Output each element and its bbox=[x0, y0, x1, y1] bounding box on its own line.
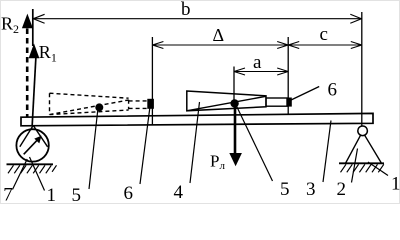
leader to upper label 6 bbox=[290, 87, 319, 101]
right ground hatching bbox=[341, 164, 384, 172]
leader for label 2 bbox=[352, 149, 358, 183]
force P_l line bbox=[234, 104, 237, 155]
tick delta right / a right bbox=[287, 37, 289, 115]
svg-text:7: 7 bbox=[3, 184, 13, 204]
force R1 line (also left tick of dimension b) bbox=[32, 9, 34, 46]
leader for label 4 bbox=[190, 102, 200, 183]
leader for lower label 6 bbox=[140, 108, 150, 184]
dimension a left arrowhead bbox=[234, 68, 245, 75]
svg-text:3: 3 bbox=[306, 179, 316, 200]
dimension c left arrowhead bbox=[288, 42, 299, 49]
leader for right label 5 bbox=[236, 105, 273, 181]
solid weight pointer diagonal bbox=[187, 96, 266, 111]
svg-text:6: 6 bbox=[124, 183, 134, 204]
beam 3 (lever bar) bbox=[21, 113, 373, 125]
stop square 6 bbox=[287, 98, 292, 107]
left ground line bbox=[7, 163, 54, 165]
force R2 arrowhead bbox=[22, 14, 33, 29]
leader for label 7 bbox=[13, 159, 28, 190]
leader for left label 5 bbox=[89, 108, 98, 189]
svg-text:1: 1 bbox=[391, 174, 400, 195]
tick right (b and c right boundary) bbox=[361, 12, 363, 126]
gauge needle arrowhead bbox=[34, 136, 41, 144]
dimension a line bbox=[234, 71, 288, 73]
svg-text:a: a bbox=[253, 52, 262, 73]
dimension b line bbox=[33, 18, 362, 20]
tick delta left bbox=[151, 37, 153, 125]
gauge circle 7 (dynamometer) bbox=[16, 129, 48, 161]
right ground line bbox=[339, 162, 384, 164]
force R1 arrowhead bbox=[29, 44, 40, 59]
left ground hatching bbox=[8, 165, 57, 173]
gauge needle bbox=[24, 140, 38, 155]
right pin circle bbox=[358, 126, 368, 136]
dimension c line bbox=[288, 44, 362, 46]
dashed-position stop square 6 bbox=[147, 99, 154, 109]
svg-text:b: b bbox=[181, 0, 191, 20]
dimension a right arrowhead bbox=[277, 68, 288, 75]
left support triangle legs bbox=[20, 125, 48, 146]
dashed-position pivot dot bbox=[95, 103, 103, 111]
leader for left label 1 bbox=[30, 157, 45, 191]
svg-text:5: 5 bbox=[72, 185, 82, 204]
dimension c right arrowhead bbox=[351, 42, 362, 49]
leader for label 3 bbox=[323, 121, 331, 183]
svg-text:1: 1 bbox=[47, 185, 57, 204]
dimension delta right arrowhead bbox=[277, 42, 288, 49]
leader for right label 1 bbox=[368, 162, 388, 176]
tick a left bbox=[233, 67, 235, 101]
force P_l arrowhead bbox=[229, 153, 242, 166]
dimension b left arrowhead bbox=[33, 14, 44, 23]
force R2 dashed line bbox=[26, 29, 29, 118]
dimension delta left arrowhead bbox=[152, 42, 163, 49]
right support legs bbox=[346, 135, 382, 164]
dashed weight outline (alternate position of slider 5) bbox=[50, 93, 148, 114]
svg-text:6: 6 bbox=[328, 80, 338, 101]
svg-text:5: 5 bbox=[280, 179, 290, 200]
dimension b right arrowhead bbox=[350, 14, 361, 23]
svg-text:Δ: Δ bbox=[213, 25, 225, 45]
solid weight rod 4 bbox=[266, 98, 287, 106]
svg-text:4: 4 bbox=[174, 182, 184, 203]
dimension delta line bbox=[152, 44, 288, 46]
solid weight 5 trapezoid bbox=[187, 91, 266, 111]
svg-text:2: 2 bbox=[337, 179, 347, 200]
pivot dot (knife edge) bbox=[230, 99, 238, 107]
svg-text:c: c bbox=[320, 24, 328, 45]
